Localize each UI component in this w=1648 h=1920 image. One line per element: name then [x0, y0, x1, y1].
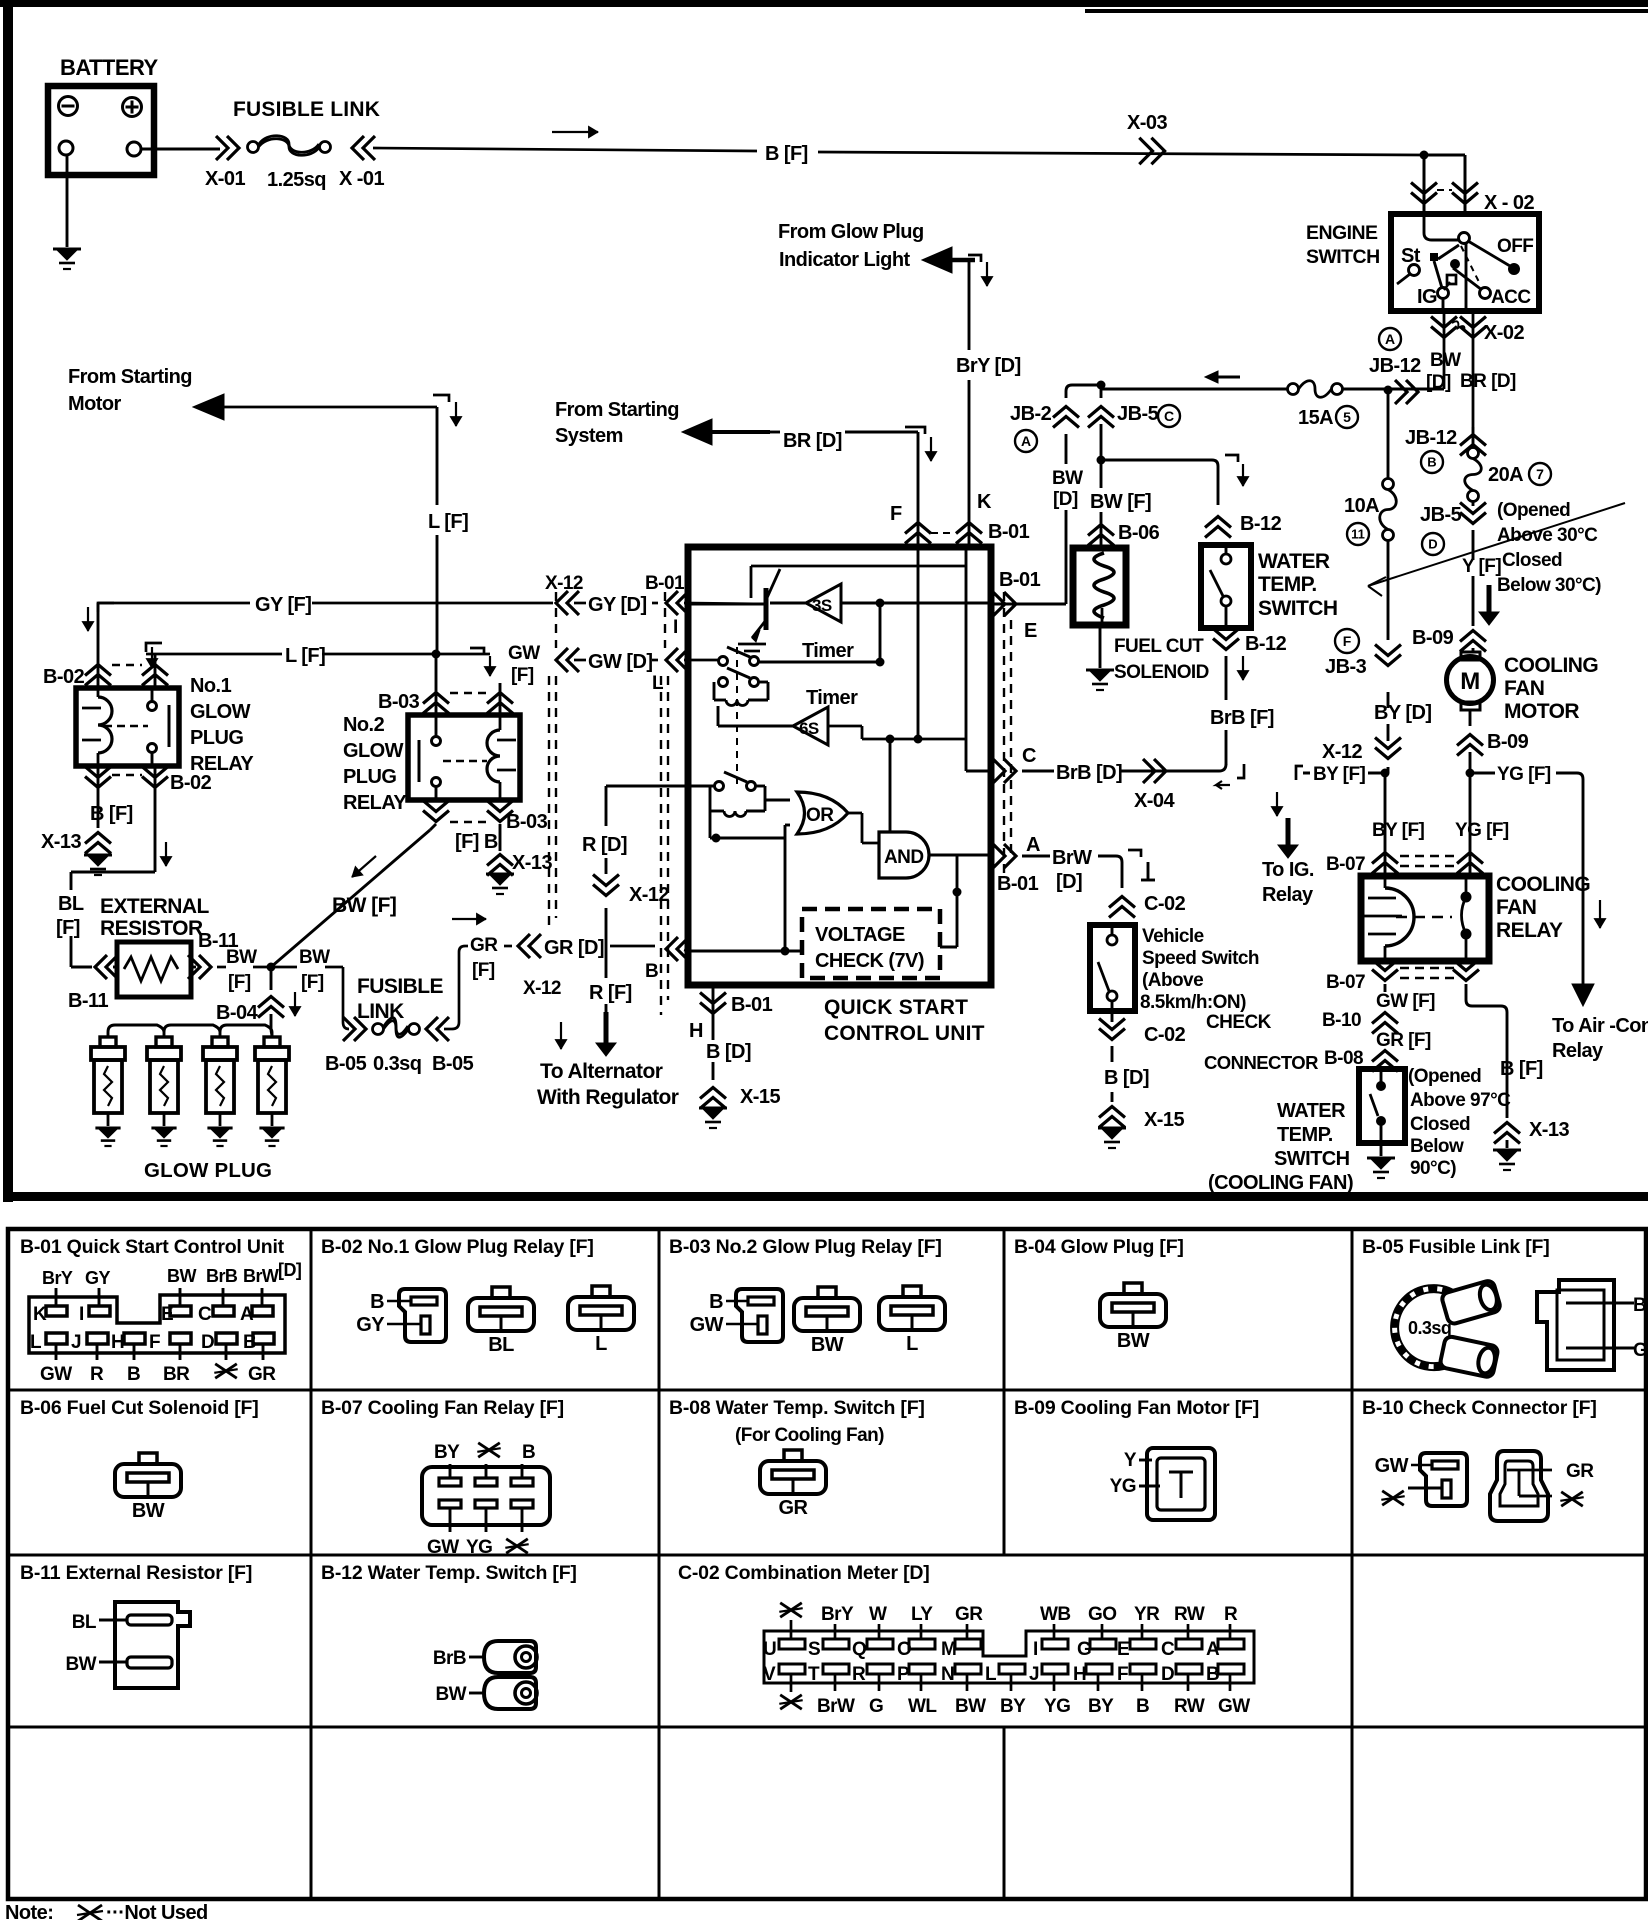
svg-text:U: U	[763, 1639, 776, 1660]
svg-text:JB-5: JB-5	[1117, 403, 1159, 425]
svg-text:RW: RW	[1174, 1696, 1205, 1717]
svg-text:L [F]: L [F]	[428, 511, 468, 533]
svg-text:BW [F]: BW [F]	[332, 894, 396, 917]
wire motor to YG	[1469, 710, 1472, 726]
svg-text:TEMP.: TEMP.	[1258, 573, 1317, 596]
wire JB rail 15A	[1101, 388, 1287, 391]
svg-text:BL: BL	[58, 893, 84, 915]
connector C-02 bottom chevron	[1099, 1029, 1125, 1040]
svg-text:BrY: BrY	[42, 1268, 73, 1288]
svg-text:C-02 Combination Meter [D]: C-02 Combination Meter [D]	[678, 1562, 930, 1584]
arrow Y down	[1487, 585, 1492, 613]
svg-text:B-12: B-12	[1245, 633, 1287, 655]
connector diagram B-02 L	[568, 1297, 634, 1330]
connector JB-5 D chevron	[1460, 513, 1486, 524]
svg-text:BrY: BrY	[821, 1604, 854, 1625]
connector diagram B-10 plug	[1420, 1453, 1467, 1506]
connector B-07 bottom chevrons	[1372, 970, 1398, 981]
svg-text:B-05 Fusible Link [F]: B-05 Fusible Link [F]	[1362, 1236, 1550, 1258]
wire AND output to A pin	[929, 854, 991, 857]
svg-text:BW: BW	[435, 1684, 466, 1705]
svg-text:No.1: No.1	[190, 675, 232, 697]
connector JB-12 B chevron	[1460, 435, 1486, 446]
svg-text:IG: IG	[1417, 286, 1437, 308]
svg-text:[F] B: [F] B	[455, 831, 498, 853]
svg-text:QUICK START: QUICK START	[824, 996, 968, 1019]
svg-text:[D]: [D]	[278, 1260, 301, 1280]
svg-text:B-01: B-01	[997, 873, 1039, 895]
svg-text:[F]: [F]	[301, 972, 324, 993]
connector B-01 I chevron	[666, 591, 678, 615]
fuel cut solenoid coil	[1094, 553, 1114, 618]
wire GW into L pin	[684, 659, 718, 662]
wire H pin to ground X-15	[712, 995, 715, 1040]
water temp switch cooling fan box	[1359, 1069, 1405, 1143]
svg-text:BrB [D]: BrB [D]	[1056, 762, 1122, 784]
connector B-07 left top chevron	[1372, 853, 1398, 864]
svg-text:X-04: X-04	[1134, 790, 1175, 812]
fusible link 1.25sq	[248, 142, 259, 153]
wire BW to fusible link B-05	[271, 966, 297, 969]
border frame top bar	[0, 0, 1648, 7]
svg-text:B: B	[1427, 455, 1436, 470]
arrow to starting motor	[222, 406, 437, 409]
wire to engine switch	[1424, 154, 1465, 157]
relay No.1 glow plug relay box	[76, 688, 179, 766]
connector B-11 right chevron	[191, 966, 196, 969]
wire BrB[F]	[1225, 656, 1228, 700]
svg-text:GW: GW	[40, 1364, 72, 1385]
svg-text:LY: LY	[911, 1604, 933, 1625]
svg-text:To Air -Con: To Air -Con	[1552, 1015, 1648, 1037]
svg-text:WL: WL	[908, 1696, 937, 1717]
svg-text:WATER: WATER	[1258, 550, 1330, 573]
node branch water temp	[1097, 456, 1106, 465]
svg-text:(For Cooling Fan): (For Cooling Fan)	[735, 1425, 884, 1446]
svg-text:(Opened: (Opened	[1497, 500, 1570, 521]
connector B-09 bottom chevron	[1457, 735, 1483, 746]
wire B[F] to ground X-13	[97, 766, 100, 828]
wire J pin R[D]	[606, 785, 688, 788]
node L junction	[432, 650, 441, 659]
connector X-12 GW chevron	[556, 648, 568, 672]
svg-text:B-11: B-11	[68, 990, 108, 1012]
svg-text:C: C	[1164, 408, 1174, 424]
hook BrY	[968, 255, 981, 262]
arrow on BW diagonal	[352, 856, 376, 877]
wire GR[D] to B-01 B chevron	[610, 945, 655, 948]
arrow To IG relay	[1276, 792, 1278, 816]
wire GW[F] check connector	[1384, 984, 1387, 992]
connector diagram B-06	[115, 1464, 181, 1497]
svg-text:SWITCH: SWITCH	[1274, 1148, 1350, 1170]
node A circled 2	[1015, 430, 1037, 452]
svg-text:From Starting: From Starting	[555, 399, 679, 421]
svg-text:R [F]: R [F]	[589, 982, 632, 1004]
svg-text:BY [F]: BY [F]	[1313, 764, 1366, 785]
svg-text:No.2: No.2	[343, 714, 385, 736]
svg-text:SOLENOID: SOLENOID	[1114, 662, 1209, 683]
svg-text:V: V	[763, 1664, 776, 1685]
svg-text:X-13: X-13	[512, 852, 552, 874]
connector diagram B-03 BW	[794, 1298, 860, 1331]
svg-text:H: H	[111, 1332, 124, 1353]
svg-text:K: K	[977, 491, 992, 513]
svg-text:BrW: BrW	[243, 1266, 279, 1286]
svg-text:GY [F]: GY [F]	[255, 594, 311, 616]
svg-text:YG: YG	[466, 1537, 492, 1558]
svg-text:6S: 6S	[799, 719, 819, 738]
svg-text:BR [D]: BR [D]	[1460, 371, 1516, 392]
svg-text:I: I	[673, 617, 678, 638]
svg-text:RW: RW	[1174, 1604, 1205, 1625]
svg-text:A: A	[1021, 433, 1031, 449]
node F circled	[1335, 629, 1359, 653]
svg-text:B [F]: B [F]	[1500, 1058, 1543, 1080]
svg-text:Indicator Light: Indicator Light	[779, 249, 911, 271]
hook X-04 corner	[1237, 764, 1244, 778]
svg-text:B-05: B-05	[325, 1053, 367, 1075]
svg-text:BY: BY	[1000, 1696, 1026, 1717]
ground X-15 H	[699, 1107, 727, 1110]
wire L vertical	[436, 407, 439, 505]
cooling fan motor M1	[1461, 652, 1480, 660]
svg-text:CONNECTOR: CONNECTOR	[1204, 1052, 1318, 1073]
svg-text:GR: GR	[779, 1497, 809, 1519]
svg-text:J: J	[1029, 1664, 1039, 1685]
wire L[F] horizontal	[146, 653, 282, 656]
timer 6S triangle	[793, 707, 828, 745]
svg-text:B-08 Water Temp. Switch [F]: B-08 Water Temp. Switch [F]	[669, 1397, 925, 1419]
svg-text:FAN: FAN	[1504, 677, 1544, 700]
connector B-01 dashed link left	[664, 592, 666, 648]
svg-text:B-12: B-12	[1240, 513, 1282, 535]
svg-text:BrB: BrB	[206, 1266, 238, 1286]
hook F	[905, 427, 925, 434]
svg-text:St: St	[1401, 245, 1421, 267]
wire relay No.1 output to BL	[154, 766, 157, 872]
svg-text:PLUG: PLUG	[343, 766, 396, 788]
connector X-15 chevron VSS	[1111, 1092, 1114, 1102]
fuse 10A	[1383, 479, 1394, 490]
voltage check box	[802, 909, 940, 978]
svg-text:11: 11	[1351, 527, 1365, 542]
svg-text:B-10: B-10	[1322, 1010, 1361, 1031]
svg-text:C: C	[1022, 745, 1036, 767]
svg-text:BW: BW	[65, 1654, 96, 1675]
svg-text:G: G	[869, 1696, 883, 1717]
arrow to starting system	[710, 430, 770, 434]
wire BR[D] to F pin	[770, 431, 780, 434]
svg-text:BW: BW	[167, 1266, 196, 1286]
svg-text:B-06 Fuel Cut Solenoid [F]: B-06 Fuel Cut Solenoid [F]	[20, 1397, 259, 1419]
ground fuel cut solenoid	[1086, 669, 1114, 672]
resistor external resistor	[117, 942, 191, 997]
relay coil K1	[726, 700, 748, 706]
relay No.1 coil	[97, 688, 100, 697]
svg-text:X-03: X-03	[1127, 112, 1167, 134]
wire to C pin	[965, 739, 968, 771]
relay coil K2	[724, 811, 746, 817]
wire relay output B[F]	[1465, 984, 1468, 1000]
svg-text:GW: GW	[690, 1314, 724, 1336]
svg-text:X-15: X-15	[740, 1086, 780, 1108]
connector B-06 chevron	[1088, 525, 1114, 536]
hook GY	[98, 603, 114, 612]
svg-text:BW [F]: BW [F]	[1090, 491, 1151, 513]
svg-text:J: J	[71, 1332, 81, 1353]
connector X-12 dashed link	[555, 592, 557, 648]
svg-text:B-03: B-03	[378, 691, 420, 713]
svg-text:B-02: B-02	[170, 772, 212, 794]
svg-text:JB-3: JB-3	[1325, 656, 1367, 678]
svg-text:[F]: [F]	[511, 665, 534, 686]
connector diagram B-05 box	[1537, 1280, 1614, 1370]
wire GW[F] to No.2 relay	[499, 683, 502, 715]
connector X-01 left chevron	[227, 136, 239, 160]
arrow to air con relay	[1572, 984, 1594, 1006]
connector B-11 left chevron	[95, 955, 107, 979]
svg-text:BR: BR	[163, 1364, 190, 1385]
svg-text:TEMP.: TEMP.	[1277, 1124, 1333, 1146]
svg-text:GR [F]: GR [F]	[1376, 1030, 1431, 1051]
svg-text:B [F]: B [F]	[90, 803, 133, 825]
wire K pin internal	[965, 547, 968, 739]
svg-text:H: H	[689, 1020, 703, 1042]
svg-text:B-09 Cooling Fan Motor [F]: B-09 Cooling Fan Motor [F]	[1014, 1397, 1259, 1419]
node JB5 top	[1097, 381, 1106, 390]
note arrow opened above 30C	[1368, 503, 1625, 586]
svg-text:Below 30°C): Below 30°C)	[1497, 575, 1601, 596]
wire BW diagonal	[430, 824, 436, 830]
wire to ground X-13 right	[1506, 1140, 1509, 1148]
svg-text:B-01 Quick Start Control Unit: B-01 Quick Start Control Unit	[20, 1236, 285, 1258]
switch contacts S3	[688, 785, 714, 788]
wire BL to resistor	[71, 966, 92, 969]
svg-text:90°C): 90°C)	[1410, 1158, 1456, 1179]
svg-text:JB-5: JB-5	[1420, 504, 1462, 526]
svg-text:BW: BW	[299, 947, 330, 968]
wire WTS2 to ground	[1380, 1143, 1383, 1156]
svg-text:EXTERNAL: EXTERNAL	[100, 895, 209, 918]
vehicle speed switch box	[1090, 925, 1135, 1011]
wire GY[F]	[98, 602, 250, 605]
svg-text:BW: BW	[1430, 350, 1461, 371]
svg-text:I: I	[79, 1304, 84, 1325]
svg-text:L: L	[906, 1333, 918, 1355]
node B[F]/engine switch	[1420, 151, 1429, 160]
svg-text:Relay: Relay	[1262, 884, 1314, 906]
battery B	[48, 86, 154, 175]
svg-text:0.3sq: 0.3sq	[373, 1053, 421, 1075]
svg-text:BrY [D]: BrY [D]	[956, 355, 1021, 377]
svg-text:BATTERY: BATTERY	[60, 55, 158, 80]
connector B-02 bottom chevrons	[85, 777, 111, 788]
relay No.1 contacts	[104, 725, 148, 727]
svg-text:B-04: B-04	[216, 1002, 259, 1024]
wire branch to water temp switch	[1101, 459, 1212, 462]
node C circled	[1158, 405, 1180, 427]
svg-text:Note:: Note:	[5, 1902, 53, 1920]
svg-text:System: System	[555, 425, 623, 447]
svg-text:R: R	[1224, 1604, 1238, 1625]
svg-text:L: L	[595, 1333, 607, 1355]
svg-text:20A: 20A	[1488, 464, 1523, 486]
wire BY[F] horizontal	[1303, 772, 1385, 775]
svg-text:VOLTAGE: VOLTAGE	[815, 924, 905, 946]
svg-text:GY: GY	[85, 1268, 110, 1288]
svg-text:F: F	[890, 503, 902, 525]
svg-text:FUEL CUT: FUEL CUT	[1114, 636, 1204, 657]
svg-text:YG: YG	[1110, 1476, 1136, 1497]
relay cooling fan relay box	[1361, 876, 1489, 961]
connector X-03 chevron	[1151, 138, 1164, 164]
svg-text:F: F	[1117, 1664, 1128, 1685]
relay No.2 coil	[499, 715, 502, 730]
svg-text:PLUG: PLUG	[190, 727, 243, 749]
connector X-02 top chevrons	[1411, 193, 1437, 204]
wire L to No.2 relay	[435, 654, 438, 715]
svg-text:COOLING: COOLING	[1504, 654, 1598, 677]
wire 6S output	[828, 725, 862, 728]
svg-text:JB-12: JB-12	[1369, 355, 1421, 377]
wire GR to B pin	[459, 946, 465, 952]
svg-text:Below: Below	[1410, 1136, 1464, 1157]
connector B-07 right top chevron	[1457, 853, 1483, 864]
svg-text:B [D]: B [D]	[706, 1041, 751, 1063]
svg-text:7: 7	[1536, 466, 1544, 482]
wire F pin internal	[917, 547, 920, 739]
connector B-01 dashed right	[1003, 592, 1005, 880]
connector B-01 L chevron	[666, 648, 678, 672]
relay No.2 contacts	[432, 737, 441, 746]
svg-text:X-12: X-12	[629, 884, 669, 906]
switch contacts S2	[719, 678, 728, 687]
svg-text:BrW: BrW	[817, 1696, 855, 1717]
svg-text:GW: GW	[1375, 1455, 1409, 1477]
wire BW down to glow plugs	[270, 967, 273, 990]
fuse 20A	[1468, 448, 1479, 459]
connector diagram B-11	[115, 1602, 190, 1688]
wire BY[D] vertical	[1387, 390, 1390, 773]
svg-text:BrW: BrW	[1052, 847, 1092, 869]
svg-text:SWITCH: SWITCH	[1258, 597, 1338, 620]
svg-text:BL: BL	[72, 1612, 97, 1633]
connector diagram B-03 plug	[736, 1289, 783, 1342]
ground WTS cooling fan	[1367, 1157, 1395, 1160]
svg-text:B: B	[127, 1364, 140, 1385]
connector X-02 bottom chevrons	[1443, 311, 1446, 389]
flow arrow B-12	[1242, 656, 1244, 680]
svg-text:Closed: Closed	[1502, 550, 1562, 571]
svg-text:X-13: X-13	[41, 831, 81, 853]
svg-text:[D]: [D]	[1056, 871, 1082, 893]
connector JB-3 chevron	[1375, 655, 1401, 666]
flow arrow on B[F]	[552, 131, 598, 133]
svg-text:BR [D]: BR [D]	[783, 430, 842, 452]
svg-text:GR: GR	[1566, 1461, 1594, 1482]
arrow to glow plug indicator light	[952, 258, 975, 263]
svg-text:BW: BW	[1633, 1295, 1648, 1316]
connector B-02 top chevrons	[85, 665, 111, 676]
hook L	[433, 395, 449, 402]
ground battery	[53, 248, 81, 251]
transistor Q1	[688, 603, 764, 606]
svg-text:GR: GR	[955, 1604, 983, 1625]
connector X-12 R chevron	[593, 885, 619, 896]
svg-text:8.5km/h:ON): 8.5km/h:ON)	[1140, 992, 1246, 1013]
svg-text:BW: BW	[811, 1334, 844, 1356]
connector X-13 chevron left	[85, 833, 111, 844]
connector B-12 top chevron	[1205, 517, 1231, 528]
connector X-12 GY chevron	[556, 591, 568, 615]
svg-text:BY: BY	[1088, 1696, 1114, 1717]
connector B-01 K chevron	[956, 523, 982, 534]
svg-text:Motor: Motor	[68, 393, 122, 415]
svg-text:D: D	[1161, 1664, 1174, 1685]
svg-text:F: F	[1343, 633, 1352, 649]
svg-text:RELAY: RELAY	[343, 792, 407, 814]
svg-text:FAN: FAN	[1496, 896, 1536, 919]
svg-text:B: B	[1136, 1696, 1149, 1717]
svg-text:BW: BW	[955, 1696, 986, 1717]
arrow to alternator	[604, 1012, 609, 1044]
wire GY down to No.1 relay	[97, 603, 100, 688]
svg-text:B: B	[522, 1442, 535, 1463]
wire BW from resistor	[217, 966, 226, 969]
svg-text:Above 97°C: Above 97°C	[1410, 1090, 1511, 1111]
connector X-15 chevron H	[700, 1088, 726, 1099]
hook GW[F]	[470, 648, 484, 655]
svg-text:LINK: LINK	[357, 1000, 404, 1023]
svg-text:BW: BW	[226, 947, 257, 968]
svg-text:YG: YG	[1044, 1696, 1070, 1717]
svg-text:Above 30°C: Above 30°C	[1497, 525, 1598, 546]
wire B[F]	[373, 148, 757, 151]
svg-text:GLOW PLUG: GLOW PLUG	[144, 1159, 272, 1182]
svg-text:B-02: B-02	[43, 666, 85, 688]
ground X-13 left	[84, 854, 112, 857]
svg-text:(Above: (Above	[1142, 970, 1203, 991]
svg-text:GY [D]: GY [D]	[588, 594, 647, 616]
svg-text:B-01: B-01	[645, 573, 685, 594]
svg-text:[F]: [F]	[472, 960, 495, 981]
wire GY into I pin	[684, 603, 766, 604]
svg-text:BW: BW	[132, 1500, 165, 1522]
svg-text:WATER: WATER	[1277, 1100, 1346, 1122]
table row lines	[8, 1389, 1646, 1392]
connector diagram C-02	[764, 1631, 1254, 1683]
svg-text:Timer: Timer	[802, 640, 854, 662]
water temp switch box	[1201, 545, 1251, 628]
svg-text:B: B	[645, 961, 658, 982]
connector B-08 chevron	[1372, 1051, 1398, 1062]
svg-text:B-07: B-07	[1326, 854, 1365, 875]
flow arrow JB rail	[1213, 376, 1240, 379]
svg-text:ENGINE: ENGINE	[1306, 222, 1378, 244]
svg-text:B: B	[709, 1291, 723, 1313]
svg-text:BrB [F]: BrB [F]	[1210, 707, 1274, 729]
svg-text:B [D]: B [D]	[1104, 1067, 1149, 1089]
svg-text:M: M	[1460, 668, 1479, 695]
svg-text:Timer: Timer	[806, 687, 858, 709]
engine switch contacts	[1459, 233, 1470, 244]
svg-text:X-12: X-12	[545, 573, 583, 594]
svg-text:B-01: B-01	[999, 569, 1041, 591]
connector X-04 chevron	[1154, 759, 1166, 783]
svg-text:(Opened: (Opened	[1408, 1066, 1481, 1087]
svg-text:GW: GW	[1218, 1696, 1250, 1717]
